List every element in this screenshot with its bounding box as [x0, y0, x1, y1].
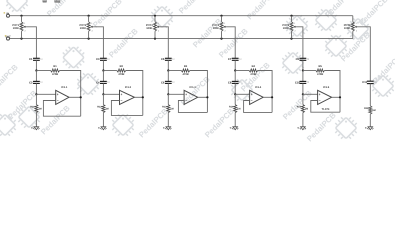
resistor RG2	[102, 105, 105, 113]
op-amp IC1.2	[120, 90, 135, 104]
svg-text:C6: C6	[161, 81, 165, 84]
wire	[235, 93, 249, 95]
ground output chain	[368, 127, 373, 130]
resistor R5	[316, 69, 325, 72]
svg-text:G: G	[297, 127, 299, 130]
wire	[303, 70, 316, 72]
svg-text:G: G	[230, 127, 232, 130]
svg-text:1u: 1u	[239, 57, 241, 60]
svg-text:TL074: TL074	[322, 108, 330, 111]
trimmer POT4	[220, 22, 223, 31]
resistor R1	[51, 69, 60, 72]
svg-text:R3: R3	[184, 65, 188, 68]
capacitor C2	[33, 80, 40, 82]
wire	[35, 83, 37, 94]
wire	[178, 101, 207, 113]
svg-text:R14: R14	[229, 106, 234, 109]
svg-text:+: +	[319, 92, 321, 96]
resistor R4	[249, 69, 258, 72]
svg-text:G: G	[31, 127, 33, 130]
junction top bus / POT5	[290, 15, 292, 17]
wire POT2 bottom	[88, 31, 90, 38]
svg-text:C11: C11	[362, 81, 367, 84]
svg-text:100K: 100K	[213, 27, 219, 30]
svg-text:C8: C8	[228, 81, 232, 84]
wire	[102, 113, 104, 127]
wire	[302, 71, 304, 82]
wire	[332, 96, 340, 98]
svg-text:100K: 100K	[13, 27, 19, 30]
node stage3 B	[167, 93, 169, 95]
svg-text:C10: C10	[295, 81, 300, 84]
svg-text:1u: 1u	[172, 57, 174, 60]
svg-text:C1: C1	[29, 58, 33, 61]
wire bottom bus	[10, 38, 353, 40]
junction bottom bus / POT2	[88, 38, 90, 40]
wire	[302, 94, 304, 104]
svg-text:1u: 1u	[40, 57, 42, 60]
svg-text:470R: 470R	[182, 73, 188, 76]
node stage4 B	[234, 93, 236, 95]
wire	[168, 70, 181, 72]
svg-text:1M: 1M	[105, 107, 108, 110]
svg-text:100K: 100K	[283, 27, 289, 30]
wire	[244, 101, 273, 113]
svg-text:+: +	[185, 92, 187, 96]
svg-text:R1: R1	[53, 65, 57, 68]
wire	[302, 113, 304, 127]
wire	[36, 93, 55, 95]
ground stage4	[233, 127, 238, 130]
svg-text:1u: 1u	[239, 81, 241, 84]
op-amp IC1.5	[318, 90, 332, 104]
svg-text:1u: 1u	[107, 81, 109, 84]
svg-text:IC1.1: IC1.1	[61, 86, 68, 89]
wire	[102, 94, 104, 104]
ground stage1	[34, 127, 39, 130]
wire	[102, 60, 104, 70]
wire top bus end to POT6	[352, 16, 354, 22]
svg-text:470R: 470R	[118, 73, 124, 76]
wire	[234, 60, 236, 70]
svg-text:R12: R12	[97, 106, 102, 109]
power symbol (cropped)	[43, 0, 47, 2]
wire top bus	[10, 15, 353, 17]
junction top bus / POT1	[20, 15, 22, 17]
wire	[234, 83, 236, 94]
wire	[102, 83, 104, 94]
svg-text:100K: 100K	[80, 27, 86, 30]
junction top bus / POT2	[88, 15, 90, 17]
junction stage1 output	[80, 96, 82, 98]
wire	[369, 114, 371, 127]
wire	[311, 101, 340, 113]
svg-text:−: −	[251, 99, 253, 103]
wire POT1 top	[21, 16, 23, 22]
wire POT3 bottom	[154, 31, 156, 38]
svg-text:C7: C7	[228, 58, 232, 61]
junction bottom bus / POT3	[154, 38, 156, 40]
resistor R16	[369, 106, 372, 114]
wire	[168, 93, 184, 95]
svg-text:1u: 1u	[40, 81, 42, 84]
svg-text:1M: 1M	[38, 107, 41, 110]
resistor RG5	[301, 105, 304, 113]
capacitor C8	[232, 80, 239, 82]
svg-text:IC1.3: IC1.3	[189, 86, 196, 89]
svg-text:C2: C2	[29, 81, 33, 84]
wire	[103, 93, 119, 95]
wire	[102, 71, 104, 82]
wire POT1 bottom	[21, 31, 23, 38]
svg-text:+: +	[57, 92, 59, 96]
wire	[111, 101, 142, 116]
svg-text:IC1.4: IC1.4	[255, 86, 262, 89]
wire	[324, 71, 340, 113]
wire	[302, 60, 304, 70]
capacitor C5	[165, 57, 172, 59]
wire	[234, 71, 236, 82]
svg-text:G: G	[98, 127, 100, 130]
wire	[35, 60, 37, 70]
node stage2 B	[102, 93, 104, 95]
node stage1 B	[35, 93, 37, 95]
svg-text:R16: R16	[364, 107, 369, 110]
junction stage5 output	[339, 96, 341, 98]
wire	[234, 94, 236, 104]
svg-text:−: −	[121, 99, 123, 103]
wire	[134, 96, 142, 98]
wire	[167, 71, 169, 82]
wire	[198, 96, 208, 98]
svg-text:C9: C9	[296, 58, 300, 61]
svg-text:1u: 1u	[307, 81, 309, 84]
wire POT5 wiper	[296, 27, 303, 59]
capacitor C7	[232, 57, 239, 59]
junction bottom bus / POT1	[20, 38, 22, 40]
svg-text:+: +	[251, 92, 253, 96]
svg-text:R11: R11	[30, 106, 35, 109]
wire POT4 bottom	[221, 31, 223, 38]
svg-text:470R: 470R	[52, 73, 58, 76]
wire	[258, 71, 273, 113]
trimmer POT5	[290, 22, 293, 31]
ground stage3	[166, 127, 171, 130]
svg-text:R2: R2	[120, 65, 124, 68]
wire	[36, 70, 50, 72]
node stage1 A	[35, 69, 37, 71]
node stage4 A	[234, 69, 236, 71]
svg-text:+: +	[121, 92, 123, 96]
svg-text:−: −	[319, 99, 321, 103]
capacitor C6	[165, 80, 172, 82]
svg-text:R15: R15	[297, 106, 302, 109]
op-amp IC1.1	[56, 90, 69, 104]
junction top bus / POT3	[154, 15, 156, 17]
wire POT2 wiper	[93, 27, 103, 59]
svg-text:IC1.5: IC1.5	[323, 86, 330, 89]
svg-text:C5: C5	[161, 58, 165, 61]
svg-text:1u: 1u	[307, 57, 309, 60]
svg-text:−: −	[185, 99, 187, 103]
svg-text:C3: C3	[96, 58, 100, 61]
svg-text:100K: 100K	[344, 27, 350, 30]
capacitor C11	[367, 80, 374, 82]
svg-text:470R: 470R	[317, 73, 323, 76]
wire POT1 wiper	[26, 27, 36, 59]
capacitor C4	[100, 80, 107, 82]
trimmer POT1	[20, 22, 23, 31]
svg-text:100K: 100K	[146, 27, 152, 30]
svg-text:470R: 470R	[250, 73, 256, 76]
wire	[69, 96, 81, 98]
wire	[235, 70, 249, 72]
wire POT3 top	[154, 16, 156, 22]
connector J2 (bottom bus input)	[7, 37, 10, 40]
wire	[35, 71, 37, 82]
svg-text:R5: R5	[318, 65, 322, 68]
wire POT2 top	[88, 16, 90, 22]
svg-text:−: −	[57, 99, 59, 103]
wire	[167, 113, 169, 127]
trimmer POT3	[154, 22, 157, 31]
capacitor C1	[33, 57, 40, 59]
wire bottom bus end to POT6	[352, 31, 354, 38]
ground stage2	[101, 127, 106, 130]
wire	[126, 71, 143, 116]
wire POT6 wiper	[357, 27, 370, 81]
resistor RG3	[167, 105, 170, 113]
connector J1 (top bus input)	[7, 14, 10, 17]
svg-text:R13: R13	[162, 106, 167, 109]
resistor R2	[117, 69, 126, 72]
node stage3 A	[167, 69, 169, 71]
junction stage2 output	[142, 96, 144, 98]
junction bottom bus / POT4	[220, 38, 222, 40]
capacitor C10	[300, 80, 307, 82]
svg-text:R4: R4	[252, 65, 256, 68]
node stage2 A	[102, 69, 104, 71]
wire	[167, 94, 169, 104]
watermark pattern	[0, 0, 395, 144]
resistor R3	[181, 69, 190, 72]
wire	[303, 93, 318, 95]
wire	[369, 84, 371, 106]
svg-text:G: G	[163, 127, 165, 130]
wire	[60, 71, 81, 117]
svg-text:1M: 1M	[305, 107, 308, 110]
wire	[167, 83, 169, 94]
node stage5 A	[302, 69, 304, 71]
resistor RG1	[35, 105, 38, 113]
junction bottom bus / POT5	[290, 38, 292, 40]
wire POT5 bottom	[291, 31, 293, 38]
op-amp IC1.3	[184, 90, 198, 104]
wire POT4 top	[221, 16, 223, 22]
wire	[43, 101, 80, 117]
svg-text:1M: 1M	[237, 107, 240, 110]
wire	[103, 70, 116, 72]
svg-text:1u: 1u	[107, 57, 109, 60]
trimmer POT2	[87, 22, 90, 31]
svg-text:C4: C4	[96, 81, 100, 84]
resistor RG4	[234, 105, 237, 113]
svg-text:1u: 1u	[172, 81, 174, 84]
wire	[35, 113, 37, 127]
junction stage4 output	[271, 96, 273, 98]
trimmer POT6	[351, 22, 354, 31]
svg-text:1M: 1M	[170, 107, 173, 110]
svg-text:1u: 1u	[374, 80, 376, 83]
wire	[35, 94, 37, 104]
power symbol 2 (cropped)	[55, 0, 60, 2]
svg-text:G: G	[365, 127, 367, 130]
wire POT5 top	[291, 16, 293, 22]
wire	[234, 113, 236, 127]
capacitor C9	[300, 57, 307, 59]
wire	[263, 96, 272, 98]
svg-text:1M: 1M	[372, 109, 375, 112]
wire	[167, 60, 169, 70]
capacitor C3	[100, 57, 107, 59]
ground stage5	[301, 127, 306, 130]
op-amp IC1.4	[250, 90, 264, 104]
wire	[190, 71, 208, 113]
wire POT4 wiper	[226, 27, 235, 59]
wire POT3 wiper	[160, 27, 169, 59]
junction top bus / POT4	[220, 15, 222, 17]
svg-text:IN: IN	[6, 13, 9, 16]
node stage5 B	[302, 93, 304, 95]
svg-text:IC1.2: IC1.2	[125, 86, 132, 89]
junction stage3 output	[206, 96, 208, 98]
wire	[302, 83, 304, 94]
